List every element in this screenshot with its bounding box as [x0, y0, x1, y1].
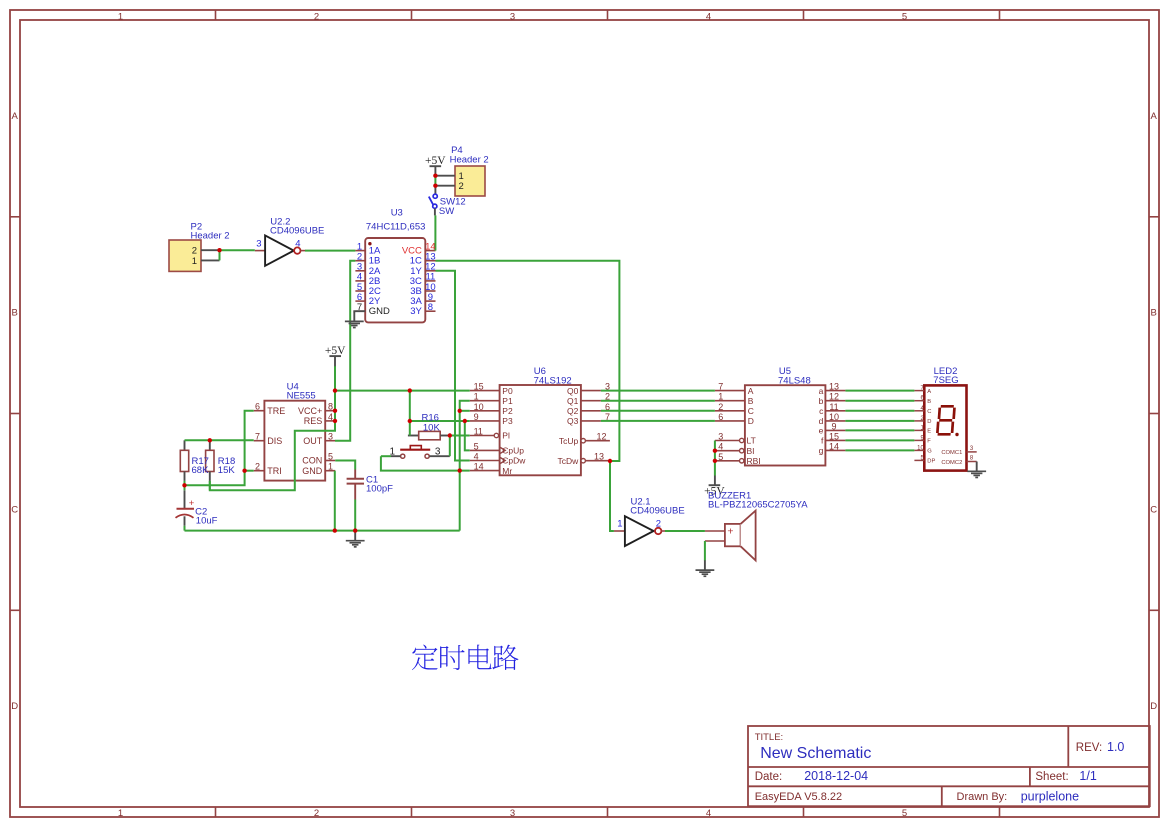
- svg-text:13: 13: [594, 452, 604, 462]
- svg-text:5: 5: [718, 452, 723, 462]
- svg-text:COMC2: COMC2: [941, 460, 962, 466]
- svg-text:15K: 15K: [218, 465, 236, 476]
- svg-text:BI: BI: [747, 446, 755, 456]
- svg-text:74LS192: 74LS192: [534, 375, 572, 386]
- svg-text:4: 4: [706, 11, 711, 22]
- svg-text:P1: P1: [502, 396, 513, 406]
- svg-text:5: 5: [902, 11, 907, 22]
- svg-text:Q3: Q3: [567, 416, 579, 426]
- svg-text:8: 8: [428, 302, 433, 313]
- svg-text:C: C: [1150, 504, 1157, 515]
- svg-text:Header 2: Header 2: [450, 155, 489, 166]
- svg-text:4: 4: [295, 239, 300, 250]
- svg-text:TRE: TRE: [267, 406, 285, 416]
- svg-text:7: 7: [718, 382, 723, 392]
- svg-text:68K: 68K: [192, 465, 210, 476]
- svg-text:10K: 10K: [423, 422, 441, 433]
- svg-text:14: 14: [474, 462, 484, 472]
- svg-text:COMC1: COMC1: [941, 450, 962, 456]
- svg-text:C: C: [11, 504, 18, 515]
- svg-text:OUT: OUT: [303, 436, 323, 446]
- svg-text:2: 2: [656, 519, 661, 530]
- svg-text:GND: GND: [369, 306, 390, 317]
- svg-text:RES: RES: [304, 416, 323, 426]
- svg-text:C: C: [927, 409, 931, 415]
- svg-text:6: 6: [255, 402, 260, 412]
- svg-text:6: 6: [605, 402, 610, 412]
- svg-text:1: 1: [718, 392, 723, 402]
- svg-text:1: 1: [328, 462, 333, 472]
- svg-text:CpUp: CpUp: [502, 446, 524, 456]
- svg-text:CD4096UBE: CD4096UBE: [630, 506, 684, 517]
- svg-text:U3: U3: [391, 207, 403, 218]
- svg-text:G: G: [927, 449, 932, 455]
- svg-text:5: 5: [328, 452, 333, 462]
- svg-text:2: 2: [314, 808, 319, 819]
- svg-text:15: 15: [474, 382, 484, 392]
- svg-text:8: 8: [328, 402, 333, 412]
- svg-text:+5V: +5V: [325, 345, 346, 357]
- svg-text:Q1: Q1: [567, 396, 579, 406]
- svg-text:B: B: [1151, 308, 1157, 319]
- svg-text:LT: LT: [747, 436, 756, 446]
- svg-text:9: 9: [831, 421, 836, 431]
- svg-text:RBI: RBI: [747, 456, 761, 466]
- svg-text:4: 4: [328, 412, 333, 422]
- svg-text:1: 1: [617, 519, 622, 530]
- svg-text:100pF: 100pF: [366, 484, 393, 495]
- svg-text:VCC+: VCC+: [298, 406, 322, 416]
- svg-text:NE555: NE555: [287, 391, 316, 402]
- svg-text:74HC11D,653: 74HC11D,653: [366, 221, 426, 232]
- svg-text:74LS48: 74LS48: [778, 375, 811, 386]
- svg-text:B: B: [748, 396, 754, 406]
- svg-text:1/1: 1/1: [1079, 769, 1096, 783]
- svg-text:11: 11: [474, 427, 483, 437]
- svg-text:C: C: [748, 406, 754, 416]
- svg-text:+: +: [727, 526, 733, 538]
- svg-text:15: 15: [829, 431, 839, 441]
- svg-text:9: 9: [474, 412, 479, 422]
- svg-text:g: g: [819, 446, 824, 456]
- svg-text:12: 12: [829, 392, 839, 402]
- svg-text:P2: P2: [502, 406, 513, 416]
- svg-text:11: 11: [829, 402, 838, 412]
- svg-text:6: 6: [718, 412, 723, 422]
- svg-text:D: D: [927, 419, 931, 425]
- svg-text:4: 4: [718, 442, 723, 452]
- svg-text:Q0: Q0: [567, 386, 579, 396]
- svg-text:1: 1: [192, 256, 197, 267]
- svg-text:CpDw: CpDw: [502, 456, 526, 466]
- svg-text:10: 10: [829, 412, 839, 422]
- svg-text:A: A: [12, 111, 19, 122]
- svg-text:CON: CON: [302, 456, 322, 466]
- svg-text:TcDw: TcDw: [558, 456, 580, 466]
- svg-text:c: c: [819, 406, 824, 416]
- svg-text:Q2: Q2: [567, 406, 579, 416]
- svg-text:3Y: 3Y: [410, 306, 422, 317]
- svg-text:A: A: [748, 386, 754, 396]
- svg-text:10: 10: [917, 445, 924, 451]
- svg-text:7: 7: [357, 302, 362, 313]
- svg-text:7: 7: [605, 412, 610, 422]
- svg-text:2: 2: [605, 392, 610, 402]
- svg-text:10: 10: [474, 402, 484, 412]
- svg-text:a: a: [819, 386, 824, 396]
- svg-text:A: A: [927, 389, 931, 395]
- svg-text:4: 4: [474, 452, 479, 462]
- svg-text:Drawn By:: Drawn By:: [957, 791, 1008, 803]
- svg-text:14: 14: [829, 441, 839, 451]
- svg-text:10uF: 10uF: [196, 515, 218, 526]
- svg-text:F: F: [927, 439, 931, 445]
- svg-text:BL-PBZ12065C2705YA: BL-PBZ12065C2705YA: [708, 499, 808, 510]
- svg-text:GND: GND: [302, 466, 323, 476]
- svg-text:1.0: 1.0: [1107, 740, 1124, 754]
- svg-text:A: A: [1151, 111, 1158, 122]
- svg-text:purplelone: purplelone: [1021, 789, 1079, 803]
- svg-text:P3: P3: [502, 416, 513, 426]
- svg-text:TITLE:: TITLE:: [755, 732, 784, 743]
- svg-text:+5V: +5V: [425, 155, 446, 167]
- svg-text:+: +: [189, 498, 195, 509]
- svg-text:3: 3: [435, 447, 441, 458]
- svg-text:New Schematic: New Schematic: [760, 745, 871, 762]
- svg-text:b: b: [819, 396, 824, 406]
- svg-text:D: D: [1150, 701, 1157, 712]
- svg-text:3: 3: [605, 382, 610, 392]
- svg-text:d: d: [819, 416, 824, 426]
- svg-text:7SEG: 7SEG: [933, 375, 958, 386]
- svg-text:5: 5: [902, 808, 907, 819]
- svg-text:2: 2: [314, 11, 319, 22]
- svg-text:4: 4: [706, 808, 711, 819]
- svg-text:1: 1: [118, 808, 123, 819]
- svg-text:EasyEDA V5.8.22: EasyEDA V5.8.22: [755, 791, 842, 803]
- svg-text:e: e: [819, 426, 824, 436]
- svg-text:SW: SW: [439, 206, 454, 217]
- svg-text:B: B: [12, 308, 18, 319]
- svg-text:2: 2: [459, 181, 464, 192]
- svg-text:DIS: DIS: [267, 436, 282, 446]
- svg-text:2: 2: [255, 462, 260, 472]
- svg-text:Sheet:: Sheet:: [1035, 771, 1068, 783]
- svg-text:Date:: Date:: [755, 771, 783, 783]
- svg-text:7: 7: [255, 432, 260, 442]
- svg-text:13: 13: [829, 382, 839, 392]
- svg-text:3: 3: [328, 432, 333, 442]
- svg-text:3: 3: [510, 808, 515, 819]
- svg-text:CD4096UBE: CD4096UBE: [270, 225, 324, 236]
- svg-text:5: 5: [474, 441, 479, 451]
- svg-text:3: 3: [510, 11, 515, 22]
- svg-text:12: 12: [596, 432, 606, 442]
- svg-text:2: 2: [718, 402, 723, 412]
- svg-text:Mr: Mr: [502, 466, 512, 476]
- svg-text:3: 3: [256, 239, 261, 250]
- svg-text:D: D: [748, 416, 754, 426]
- svg-text:1: 1: [474, 392, 479, 402]
- svg-text:D: D: [11, 701, 18, 712]
- svg-text:DP: DP: [927, 459, 935, 465]
- svg-text:REV:: REV:: [1076, 742, 1102, 754]
- svg-text:3: 3: [718, 432, 723, 442]
- svg-text:TcUp: TcUp: [559, 436, 579, 446]
- svg-text:B: B: [927, 399, 931, 405]
- svg-text:P0: P0: [502, 386, 513, 396]
- svg-text:E: E: [927, 429, 931, 435]
- svg-text:Header 2: Header 2: [191, 230, 230, 241]
- svg-text:TRI: TRI: [267, 466, 282, 476]
- svg-text:Pl: Pl: [502, 431, 510, 441]
- svg-text:2018-12-04: 2018-12-04: [804, 769, 868, 783]
- svg-text:1: 1: [118, 11, 123, 22]
